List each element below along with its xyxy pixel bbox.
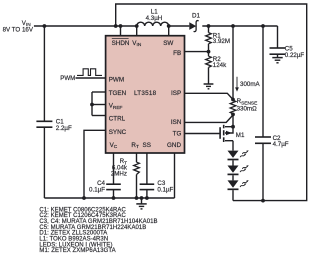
wire CTRL stub [92, 115, 106, 117]
wire TG to M1 gate [185, 133, 220, 135]
label C2 value [273, 135, 289, 148]
node RSENSE column top [231, 24, 235, 28]
node SYNC-ground rail [82, 196, 86, 200]
label C1 value [56, 119, 72, 132]
resistor R1 [206, 33, 212, 44]
LED D3 [228, 166, 239, 175]
ground below C5 [272, 58, 282, 63]
svg-text:124k: 124k [213, 62, 227, 69]
node C2 bottom [261, 199, 265, 203]
svg-text:2.2µF: 2.2µF [56, 125, 72, 132]
node RT-ground rail [135, 196, 139, 200]
wire SW pin stub [168, 26, 170, 36]
wire VIN rail [34, 25, 137, 27]
label R1 value [213, 33, 230, 46]
LED D2 [228, 151, 239, 160]
resistor RT [134, 162, 140, 174]
label R2 value [213, 56, 227, 69]
node VIN pin/L1 [135, 24, 139, 28]
svg-text:PWM: PWM [60, 75, 75, 82]
svg-text:GND: GND [167, 142, 181, 149]
node C3-ground rail [145, 196, 149, 200]
wire M1 drain to LED string [232, 141, 234, 151]
svg-text:SHDN: SHDN [112, 40, 130, 47]
ground below R2 [204, 84, 214, 89]
svg-text:2MHz: 2MHz [111, 171, 127, 178]
svg-text:ISP: ISP [171, 90, 181, 97]
LED D4 [228, 180, 239, 189]
svg-text:4.7µF: 4.7µF [273, 141, 289, 148]
IC pin label SHDN [112, 39, 130, 47]
wire C5 to ground [277, 54, 279, 57]
svg-text:SS: SS [143, 142, 151, 149]
wire LED return loop (riser, top wire, right rail, bottom-right rail) [116, 4, 307, 201]
wire bottom-left ground rail [44, 197, 174, 199]
PWM waveform symbol [77, 69, 102, 76]
wire C1 bottom to ground rail [43, 127, 45, 198]
svg-text:ISN: ISN [171, 119, 182, 126]
300mA current arrow [235, 77, 239, 92]
svg-text:LT3518: LT3518 [134, 90, 157, 97]
wire SS pin to C3 [146, 153, 148, 184]
node C2 top [261, 24, 265, 28]
wire R1 bottom to FB node [208, 44, 210, 52]
wire R1 top stub [208, 26, 210, 33]
wire RT pin upper [136, 153, 138, 162]
node VREF tie [90, 103, 94, 107]
capacitor C4 [106, 184, 121, 189]
node ground symbol-rail [140, 196, 144, 200]
node SHDN-VIN rail [119, 24, 123, 28]
node VIN input label [3, 20, 34, 34]
wire SHDN stub [120, 26, 122, 36]
svg-text:D1: D1 [192, 12, 200, 19]
wire output node after D1 [202, 25, 277, 27]
wire LED1 to LED2 [232, 160, 234, 165]
wire RSENSE bottom junction [232, 114, 234, 127]
wire VC pin to C4 [113, 153, 115, 184]
svg-text:TGEN: TGEN [109, 90, 127, 97]
label C3 value [157, 180, 173, 193]
node FB divider [207, 50, 211, 54]
wire VIN pin stub [136, 26, 138, 36]
LED D2 emission arrows [240, 153, 247, 158]
node R1 top [207, 24, 211, 28]
wire FB to divider [185, 51, 209, 53]
capacitor C2 [255, 137, 271, 143]
svg-text:PWM: PWM [109, 77, 124, 84]
LED D4 emission arrows [240, 183, 247, 188]
svg-text:CTRL: CTRL [109, 116, 126, 123]
svg-text:M1: ZETEX ZXMP6A13GTA: M1: ZETEX ZXMP6A13GTA [39, 248, 115, 254]
svg-text:0.1µF: 0.1µF [89, 187, 105, 194]
capacitor C3 [140, 184, 155, 189]
M1 body arrow [226, 131, 232, 135]
node riser-VIN rail [114, 24, 118, 28]
capacitor C1 [36, 121, 52, 127]
label C5 value [285, 45, 305, 59]
svg-text:0.22µF: 0.22µF [285, 52, 305, 59]
wire TGEN stub [92, 91, 106, 93]
svg-text:M1: M1 [236, 132, 245, 139]
node ISP/RSENSE top [231, 98, 235, 102]
node C1-VIN rail [43, 24, 47, 28]
svg-text:SW: SW [163, 40, 173, 47]
resistor R2 [206, 56, 212, 67]
capacitor C5 [270, 48, 286, 54]
wire C2 branch from output rail [262, 26, 264, 137]
wire GND pin stub [174, 153, 176, 198]
wire C4 bottom to ground rail [113, 190, 115, 198]
svg-text:4.3µH: 4.3µH [146, 15, 163, 22]
wire SW node to D1 anode [169, 25, 190, 27]
wire C2 bottom to LED return rail [262, 143, 264, 200]
svg-text:SYNC: SYNC [109, 129, 127, 136]
wire output node down to RSENSE [232, 26, 234, 100]
svg-text:330mΩ: 330mΩ [237, 105, 257, 112]
svg-text:TG: TG [173, 131, 182, 138]
wire FB node to R2 top [208, 52, 210, 57]
svg-text:300mA: 300mA [240, 81, 260, 88]
LED D3 emission arrows [240, 168, 247, 173]
label C4 value [89, 180, 105, 193]
node ISN/RSENSE bottom [231, 113, 235, 117]
wire C3 bottom to ground rail [146, 190, 148, 198]
wire VREF stub [92, 104, 106, 106]
wire RT resistor bottom to ground rail [136, 175, 138, 199]
wire ISN to RSENSE bottom [185, 115, 234, 122]
op-amp U1 : LT3518 IC body [106, 36, 185, 153]
wire ISP to RSENSE top [185, 93, 234, 99]
ground on bottom-left rail [136, 198, 146, 209]
wire C5 branch [277, 26, 279, 48]
wire PWM input [76, 77, 106, 79]
wire SYNC to ground [84, 130, 106, 198]
node C4-ground rail [112, 196, 116, 200]
label L1 value [146, 9, 163, 22]
svg-text:0.1µF: 0.1µF [157, 187, 173, 194]
transistor M1 (PMOS) [220, 125, 233, 142]
wire C1 branch from VIN rail [43, 26, 45, 121]
resistor RSENSE [230, 100, 236, 114]
label RSENSE value [237, 98, 258, 112]
label RT value [111, 158, 128, 177]
svg-text:8V TO 16V: 8V TO 16V [3, 26, 34, 33]
BOM note text [39, 207, 157, 254]
diode D1 (schottky) [189, 21, 198, 32]
svg-text:3.92M: 3.92M [213, 38, 230, 45]
wire R2 bottom to ground [208, 67, 210, 83]
node SW/L1 [167, 24, 171, 28]
inductor L1 [137, 22, 169, 26]
wire TGEN-VREF-CTRL tie [91, 92, 93, 116]
wire LED3 to bottom rail [232, 190, 234, 201]
node M1 source-body tie [231, 125, 235, 129]
svg-text:FB: FB [173, 50, 181, 57]
wire LED2 to LED3 [232, 175, 234, 180]
